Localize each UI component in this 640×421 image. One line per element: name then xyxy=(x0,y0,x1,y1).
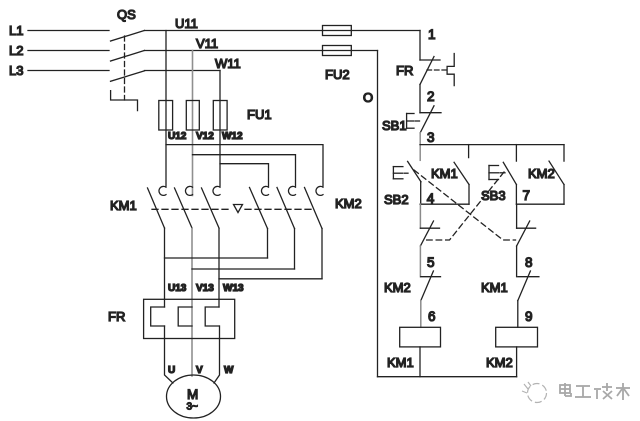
wire rail xyxy=(420,144,564,146)
contact KM2 NC interlock xyxy=(384,271,441,327)
thermal relay FR heaters xyxy=(108,299,235,338)
wire link W13 xyxy=(219,278,322,280)
svg-text:9: 9 xyxy=(525,309,533,324)
svg-text:W11: W11 xyxy=(215,56,241,71)
svg-text:FU2: FU2 xyxy=(325,67,350,82)
contact SB2 NC interlock xyxy=(517,204,536,277)
node L3 xyxy=(9,63,109,78)
wire (gray) xyxy=(419,133,421,161)
wire xyxy=(145,30,323,32)
svg-text:W13: W13 xyxy=(223,283,244,294)
wire V11 drop (gray) xyxy=(192,51,194,196)
wire xyxy=(218,229,220,300)
svg-text:1: 1 xyxy=(428,27,436,42)
node 3 xyxy=(420,130,564,160)
wire xyxy=(28,50,109,52)
svg-text:U12: U12 xyxy=(168,131,187,142)
svg-text:L1: L1 xyxy=(9,23,23,38)
node L2 xyxy=(9,43,109,58)
wire neutral xyxy=(377,51,379,377)
contactor KM2 main contacts xyxy=(250,186,362,228)
svg-text:FU1: FU1 xyxy=(247,107,272,122)
wire xyxy=(516,203,564,205)
wire xyxy=(420,203,469,205)
wire xyxy=(28,30,109,32)
mechanical linkage KM1-KM2 xyxy=(152,205,312,213)
wire U11 drop xyxy=(165,31,167,187)
svg-text:3: 3 xyxy=(427,130,435,145)
contact SB3 NC interlock xyxy=(420,204,439,277)
svg-text:FR: FR xyxy=(108,309,125,324)
svg-text:V11: V11 xyxy=(196,36,218,51)
node 7 xyxy=(516,188,564,204)
contact KM1 aux NO xyxy=(431,145,469,205)
svg-text:U13: U13 xyxy=(168,283,187,294)
contactor KM1 main contacts xyxy=(110,186,220,228)
contact KM2 aux NO xyxy=(528,145,564,205)
switch QS xyxy=(111,7,145,111)
wire xyxy=(321,229,323,279)
svg-text:SB1: SB1 xyxy=(382,118,407,133)
svg-text:8: 8 xyxy=(525,255,533,270)
wire xyxy=(145,50,323,52)
watermark text 电工技术 xyxy=(560,383,630,400)
coil KM2 xyxy=(486,327,538,376)
svg-text:W12: W12 xyxy=(222,131,243,142)
motor M xyxy=(167,375,221,418)
wire xyxy=(145,70,221,72)
thermal relay FR NC contact xyxy=(396,54,454,86)
svg-text:KM1: KM1 xyxy=(481,280,508,295)
node U11 xyxy=(145,16,421,31)
wire U12 to KM2 pole3 xyxy=(166,145,323,186)
svg-text:KM1: KM1 xyxy=(387,355,414,370)
svg-text:V12: V12 xyxy=(196,131,214,142)
svg-text:7: 7 xyxy=(523,188,531,203)
svg-text:KM1: KM1 xyxy=(110,198,137,213)
wire KM1 pole outputs xyxy=(164,228,166,299)
svg-text:W: W xyxy=(224,365,234,376)
pushbutton SB1 (NC stop) xyxy=(382,106,441,133)
svg-text:6: 6 xyxy=(428,309,436,324)
svg-text:V13: V13 xyxy=(196,283,214,294)
svg-text:O: O xyxy=(363,90,373,105)
node V11 xyxy=(145,36,378,51)
wire V13 (gray) xyxy=(191,229,193,377)
svg-text:3~: 3~ xyxy=(187,402,199,413)
fuse FU1 xyxy=(159,101,272,131)
svg-text:U: U xyxy=(168,365,175,376)
wire link V13 xyxy=(192,268,295,270)
svg-text:5: 5 xyxy=(427,255,435,270)
node 1 xyxy=(420,27,436,60)
wire W11 drop xyxy=(219,71,221,187)
watermark logo xyxy=(522,382,547,403)
svg-text:KM1: KM1 xyxy=(431,166,458,181)
wire W13 to motor xyxy=(214,339,220,384)
wire bottom rail xyxy=(378,376,517,378)
wire xyxy=(294,229,296,270)
svg-text:KM2: KM2 xyxy=(384,280,411,295)
svg-text:L2: L2 xyxy=(9,43,23,58)
node O xyxy=(363,51,517,377)
wire U13 to motor xyxy=(165,339,173,384)
node 4 xyxy=(420,191,469,206)
fuse FU2 xyxy=(323,26,352,83)
svg-text:FR: FR xyxy=(396,63,413,78)
wire link U13 xyxy=(165,257,268,259)
svg-text:M: M xyxy=(187,387,198,402)
wire KM2 pole outputs xyxy=(267,229,269,259)
pushbutton SB2 (NO start fwd) xyxy=(384,161,421,207)
svg-text:QS: QS xyxy=(117,7,136,22)
node 2 xyxy=(420,85,435,113)
wire W12 to KM2 pole1 xyxy=(220,164,269,186)
svg-text:KM2: KM2 xyxy=(528,166,555,181)
svg-text:KM2: KM2 xyxy=(486,355,513,370)
wire xyxy=(28,70,109,72)
wire xyxy=(419,31,421,61)
svg-text:KM2: KM2 xyxy=(335,196,362,211)
svg-text:2: 2 xyxy=(427,89,435,104)
mechanical linkage SB2-SB3 dashed cross xyxy=(414,170,516,240)
wire xyxy=(419,85,421,113)
pushbutton SB3 (NO start rev) xyxy=(481,145,516,205)
svg-text:V: V xyxy=(196,365,203,376)
svg-text:SB2: SB2 xyxy=(384,192,409,207)
svg-text:U11: U11 xyxy=(175,16,198,31)
coil KM1 xyxy=(387,327,441,376)
svg-text:L3: L3 xyxy=(9,63,23,78)
wire V12 to KM2 pole2 xyxy=(193,155,296,186)
node L1 xyxy=(9,23,109,38)
contact KM1 NC interlock xyxy=(481,271,539,327)
node W11 xyxy=(145,56,241,71)
